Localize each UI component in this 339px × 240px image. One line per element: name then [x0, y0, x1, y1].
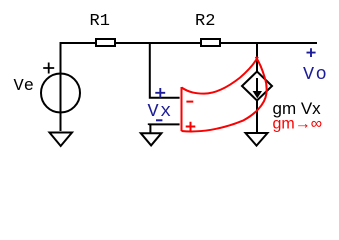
ground (left, below Ve) — [50, 133, 73, 147]
resistor R2 — [201, 39, 220, 46]
wire: dependent source branch drop at junction x=257 — [256, 43, 258, 72]
ground (middle, below Vx) — [141, 133, 162, 145]
node Vx: minus sign (blue) — [156, 119, 162, 121]
svg-text:Vx: Vx — [148, 101, 173, 122]
annotation: red plus sign at Vx bottom — [186, 122, 196, 132]
wire: Vx branch drop at junction x=150 — [150, 43, 180, 98]
wire: top bus from Ve to Vo — [61, 43, 318, 131]
svg-text:R1: R1 — [90, 12, 110, 31]
annotation: red ribbon top curve (Vx to source) — [182, 57, 258, 94]
svg-text:R2: R2 — [195, 12, 215, 31]
svg-text:Vo: Vo — [303, 64, 328, 85]
voltage source Ve (circle) — [41, 74, 80, 113]
plus sign: Ve polarity — [43, 63, 54, 74]
node Vo: plus sign (blue) — [307, 48, 316, 57]
svg-text:gm→∞: gm→∞ — [273, 116, 323, 133]
node Vx: plus sign (blue) — [155, 88, 165, 98]
annotation: red minus sign at Vx top — [186, 101, 193, 103]
svg-text:Ve: Ve — [14, 77, 34, 96]
resistor R1 — [96, 39, 115, 46]
annotation: red ribbon bottom curve wrapping the source — [182, 57, 267, 132]
annotation: red bracket at Vx gap — [181, 87, 183, 131]
current source arrow (down) — [256, 78, 258, 91]
dependent current source U1 (diamond) — [242, 72, 272, 101]
wire: dependent source to ground — [256, 100, 258, 134]
ground (right, below current source) — [246, 133, 268, 146]
wire: Vx bottom terminal to ground — [149, 124, 180, 134]
